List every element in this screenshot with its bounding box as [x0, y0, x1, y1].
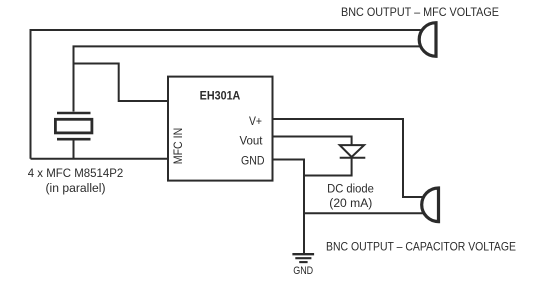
wire — [74, 64, 169, 102]
svg-text:BNC OUTPUT – MFC VOLTAGE: BNC OUTPUT – MFC VOLTAGE — [341, 5, 499, 19]
svg-text:GND: GND — [293, 265, 313, 277]
svg-text:BNC OUTPUT – CAPACITOR VOLTAGE: BNC OUTPUT – CAPACITOR VOLTAGE — [326, 240, 516, 254]
wire — [73, 141, 75, 159]
wire — [273, 137, 352, 146]
diode D1 — [340, 145, 366, 158]
BNC connector J2 (bottom) — [422, 188, 439, 222]
wire — [273, 160, 305, 254]
svg-text:Vout: Vout — [240, 134, 264, 148]
svg-text:GND: GND — [241, 153, 265, 167]
svg-text:(in parallel): (in parallel) — [46, 181, 106, 195]
svg-text:(20 mA): (20 mA) — [329, 196, 372, 210]
wire — [31, 158, 169, 160]
wire — [304, 212, 424, 214]
crystal X1 (4 x MFC M8514P2) — [55, 113, 92, 139]
svg-text:V+: V+ — [249, 114, 262, 128]
wire — [304, 158, 352, 176]
svg-text:DC diode: DC diode — [327, 182, 374, 196]
op-amp U1 EH301A box — [168, 77, 273, 181]
wire — [273, 119, 424, 197]
BNC connector J1 (top) — [419, 23, 436, 57]
svg-text:EH301A: EH301A — [200, 88, 241, 102]
wire — [31, 30, 421, 159]
ground — [292, 254, 314, 262]
svg-text:MFC IN: MFC IN — [171, 128, 185, 165]
wire — [74, 46, 422, 111]
svg-text:4 x MFC M8514P2: 4 x MFC M8514P2 — [28, 166, 124, 180]
